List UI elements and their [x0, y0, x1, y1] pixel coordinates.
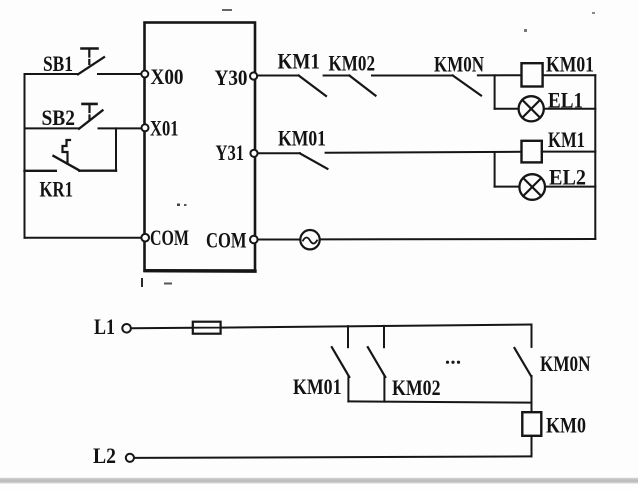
wire: branch down to EL2 — [494, 152, 496, 186]
svg-text:KM01: KM01 — [293, 374, 342, 399]
ellipsis dots — [446, 361, 449, 364]
fuse FU — [193, 322, 221, 334]
wire: COM to AC source — [258, 239, 301, 241]
wire: fuse to KM0N drop — [221, 325, 532, 328]
NC contact KM0N — [453, 76, 481, 96]
AC source — [300, 230, 319, 249]
svg-text:X01: X01 — [150, 116, 179, 141]
wire: SB2 to X01 — [99, 127, 142, 129]
svg-text:COM: COM — [206, 228, 247, 253]
svg-text:L2: L2 — [93, 443, 116, 468]
wire: to KM1 coil — [326, 152, 522, 153]
wire: EL1 to right rail — [544, 108, 596, 110]
svg-text:KM01: KM01 — [546, 52, 594, 77]
contact KM0N bottom — [531, 325, 533, 347]
svg-text:EL1: EL1 — [548, 88, 583, 113]
wire: to KM01 coil — [478, 74, 522, 76]
wire: KM0 coil to L2 line — [531, 436, 533, 457]
contactor coil KM01 — [522, 63, 543, 86]
svg-text:KM02: KM02 — [329, 51, 376, 76]
wire: Y30 out — [257, 75, 298, 77]
svg-text:SB1: SB1 — [43, 51, 73, 76]
svg-text:X00: X00 — [151, 64, 184, 89]
wire: L1 to fuse — [131, 327, 193, 330]
wire: EL2 to right rail — [545, 186, 595, 188]
wire: SB1 to X00 — [98, 73, 142, 75]
thermal relay contact KR1 — [25, 170, 56, 172]
svg-text:KR1: KR1 — [40, 177, 74, 202]
terminal Y30 — [250, 72, 257, 79]
svg-text:SB2: SB2 — [42, 105, 76, 130]
lamp EL1 — [519, 96, 544, 121]
wire: Y31 out — [258, 152, 300, 154]
terminal X01 — [142, 124, 149, 131]
wire: COM left — [25, 237, 142, 239]
NC contact KM01 — [300, 153, 327, 168]
svg-text:KM1: KM1 — [548, 127, 585, 152]
PLC controller box — [145, 23, 256, 271]
terminal COM right — [250, 236, 258, 244]
svg-text:Y30: Y30 — [215, 65, 248, 90]
wire — [372, 75, 453, 77]
terminal COM left — [141, 234, 149, 242]
terminal X00 — [141, 71, 148, 78]
scan artifact: bottom gray band — [0, 478, 638, 484]
wire: SB1 left — [25, 73, 79, 75]
contact KM01 bottom — [347, 326, 349, 347]
terminal Y31 — [250, 150, 257, 157]
NC contact KM02 — [349, 76, 375, 96]
wire: SB2 left — [25, 127, 80, 129]
wire: KM1 coil to right rail — [542, 151, 596, 153]
push button SB1 — [78, 57, 104, 74]
contactor coil KM0 — [522, 412, 541, 436]
wire: branch down to EL1 — [494, 75, 496, 108]
wire: left rail — [24, 74, 26, 238]
terminal L1 — [122, 324, 131, 333]
lamp EL2 — [519, 174, 545, 200]
contactor coil KM1 — [522, 141, 542, 163]
wire: L2 line — [134, 456, 532, 458]
wire: right rail — [594, 75, 596, 239]
svg-text:KM0: KM0 — [546, 413, 586, 438]
wire: KM01 coil to right rail — [543, 74, 596, 76]
svg-text:COM: COM — [150, 225, 189, 250]
wire: bottom bus — [348, 401, 531, 402]
svg-text:KM02: KM02 — [392, 375, 441, 400]
svg-text:Y31: Y31 — [216, 140, 245, 165]
scan artifact specks — [141, 278, 143, 287]
NC contact KM1 — [299, 76, 326, 97]
svg-text:EL2: EL2 — [549, 165, 586, 190]
svg-text:KM0N: KM0N — [540, 351, 591, 376]
svg-text:L1: L1 — [94, 314, 115, 339]
svg-text:KM1: KM1 — [278, 49, 321, 74]
svg-text:KM01: KM01 — [278, 126, 326, 151]
wire: KR1 branch up to X01 wire — [115, 128, 117, 170]
wire: AC source to right rail — [320, 238, 596, 240]
wire — [324, 75, 350, 77]
contact KM02 bottom — [383, 326, 385, 347]
svg-text:KM0N: KM0N — [434, 52, 484, 77]
terminal L2 — [126, 454, 134, 462]
push button SB2 — [79, 110, 103, 128]
